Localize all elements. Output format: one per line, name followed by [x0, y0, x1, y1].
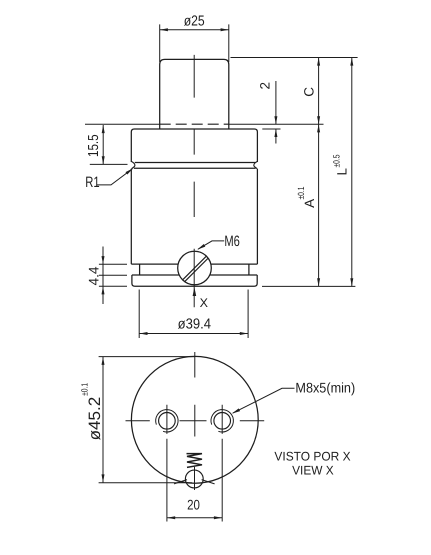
ø25 extension lines	[160, 24, 229, 62]
ø45.2 dimension line	[102, 357, 104, 483]
arrow 4.4 down	[102, 256, 105, 264]
svg-text:ø45.2: ø45.2	[86, 397, 104, 441]
svg-text:4.4: 4.4	[86, 266, 102, 285]
right hole M8 thread arc	[211, 410, 233, 432]
arrow X view up	[193, 287, 197, 296]
hidden edge dashed line at boss bottom	[160, 123, 229, 125]
arrowheads	[102, 28, 354, 519]
flange outline	[131, 129, 257, 162]
svg-text:±0.5: ±0.5	[332, 155, 342, 168]
body left side	[130, 169, 132, 264]
ø45.2 extension lines	[99, 357, 195, 483]
svg-text:20: 20	[187, 496, 200, 512]
right tangent mark	[202, 480, 215, 484]
bottom view	[131, 356, 258, 488]
svg-text:M8x5(min): M8x5(min)	[295, 379, 355, 395]
arrow ø39.4 right	[240, 332, 248, 335]
M6 screw circle	[178, 251, 212, 285]
left hole M8 inner circle	[159, 413, 176, 430]
plate mid line (split by screw circle)	[132, 274, 257, 276]
bottom view vertical centerline	[194, 352, 196, 490]
arrow A bottom	[317, 278, 320, 286]
arrow 20 left	[167, 516, 175, 519]
bottom view horizontal centerline	[126, 420, 265, 422]
centerline side view	[193, 55, 195, 307]
C and A dimension line	[318, 58, 320, 287]
svg-text:VIEW X: VIEW X	[292, 464, 334, 478]
arrow 4.4 up	[102, 286, 105, 294]
4.4 extension lines	[99, 264, 127, 286]
extension line top right (C / L top ref)	[231, 57, 358, 59]
arrow C bottom	[317, 116, 320, 124]
arrow ø45.2 top	[102, 357, 105, 365]
groove R1 left notch	[131, 161, 135, 168]
arrow M6 leader	[197, 244, 205, 250]
body right side	[256, 169, 258, 264]
arrow 2 down	[274, 116, 277, 124]
spring zigzag symbol	[187, 454, 203, 468]
arrow 15.5 top	[102, 125, 105, 133]
15.5 dimension line	[102, 125, 104, 164]
extension line right of boss bottom (2 / C / A ref)	[229, 123, 324, 125]
svg-text:ø39.4: ø39.4	[178, 316, 211, 332]
M6 leader	[198, 241, 224, 249]
arrow 15.5 bottom	[102, 156, 105, 164]
M6 screw slot lines	[176, 250, 216, 288]
extension line bottom right (A / L bottom ref)	[262, 285, 355, 287]
right hole M8 inner circle	[214, 413, 231, 430]
svg-text:ø25: ø25	[184, 14, 205, 30]
arrow M8x5 leader	[232, 408, 240, 413]
L dimension line	[351, 58, 353, 287]
plate1 (ø39.4 disc) sides	[140, 264, 249, 275]
extension line left of dashed line (15.5 top ref)	[85, 123, 160, 125]
2 dimension lines	[275, 81, 277, 144]
svg-text:C: C	[302, 87, 317, 97]
svg-text:X: X	[200, 296, 209, 310]
svg-text:R1: R1	[85, 174, 99, 191]
hole vertical centerline ticks	[167, 405, 222, 434]
ø39.4 extension lines	[139, 290, 248, 339]
extension line 15.5 bottom	[90, 163, 128, 165]
arrow ø39.4 left	[139, 332, 147, 335]
20 extension lines	[167, 439, 222, 522]
small circle below spring	[185, 470, 203, 488]
plate2 (base disc) outline	[132, 275, 257, 286]
arrow ø45.2 bottom	[102, 474, 105, 482]
ø39.4 dimension line	[139, 333, 248, 335]
arrow ø25 left	[160, 28, 168, 31]
arrow 20 right	[214, 516, 222, 519]
body bottom edge (split by screw circle)	[131, 263, 257, 265]
4.4 dimension line	[102, 247, 104, 305]
left hole M8 thread arc	[156, 410, 178, 432]
arrow A top	[317, 124, 320, 132]
M8x5 leader	[233, 388, 295, 413]
groove R1 right notch	[254, 161, 258, 168]
arrow C top	[317, 58, 320, 66]
groove upper line	[135, 162, 256, 164]
svg-text:15.5: 15.5	[86, 134, 102, 157]
arrow R1 leader	[126, 168, 134, 174]
ø25 dimension line	[160, 29, 229, 31]
arrow 2 up	[274, 129, 277, 137]
arrow L top	[350, 58, 353, 66]
svg-text:±0.1: ±0.1	[296, 187, 306, 200]
svg-text:±0.1: ±0.1	[80, 383, 90, 396]
20 dimension line	[167, 517, 222, 519]
groove lower line	[134, 167, 256, 169]
R1 leader	[97, 169, 132, 185]
arrow L bottom	[350, 278, 353, 286]
arrow ø25 right	[221, 28, 229, 31]
extension stub flange top right (2 bottom ref)	[262, 128, 280, 130]
svg-text:M6: M6	[224, 233, 240, 250]
svg-text:L: L	[334, 167, 349, 175]
base circle ø45.2	[131, 356, 258, 483]
svg-text:2: 2	[257, 82, 272, 90]
svg-text:VISTO POR X: VISTO POR X	[274, 449, 351, 463]
left tangent mark	[174, 480, 187, 484]
boss top (ø25 spigot) outline	[160, 59, 229, 129]
